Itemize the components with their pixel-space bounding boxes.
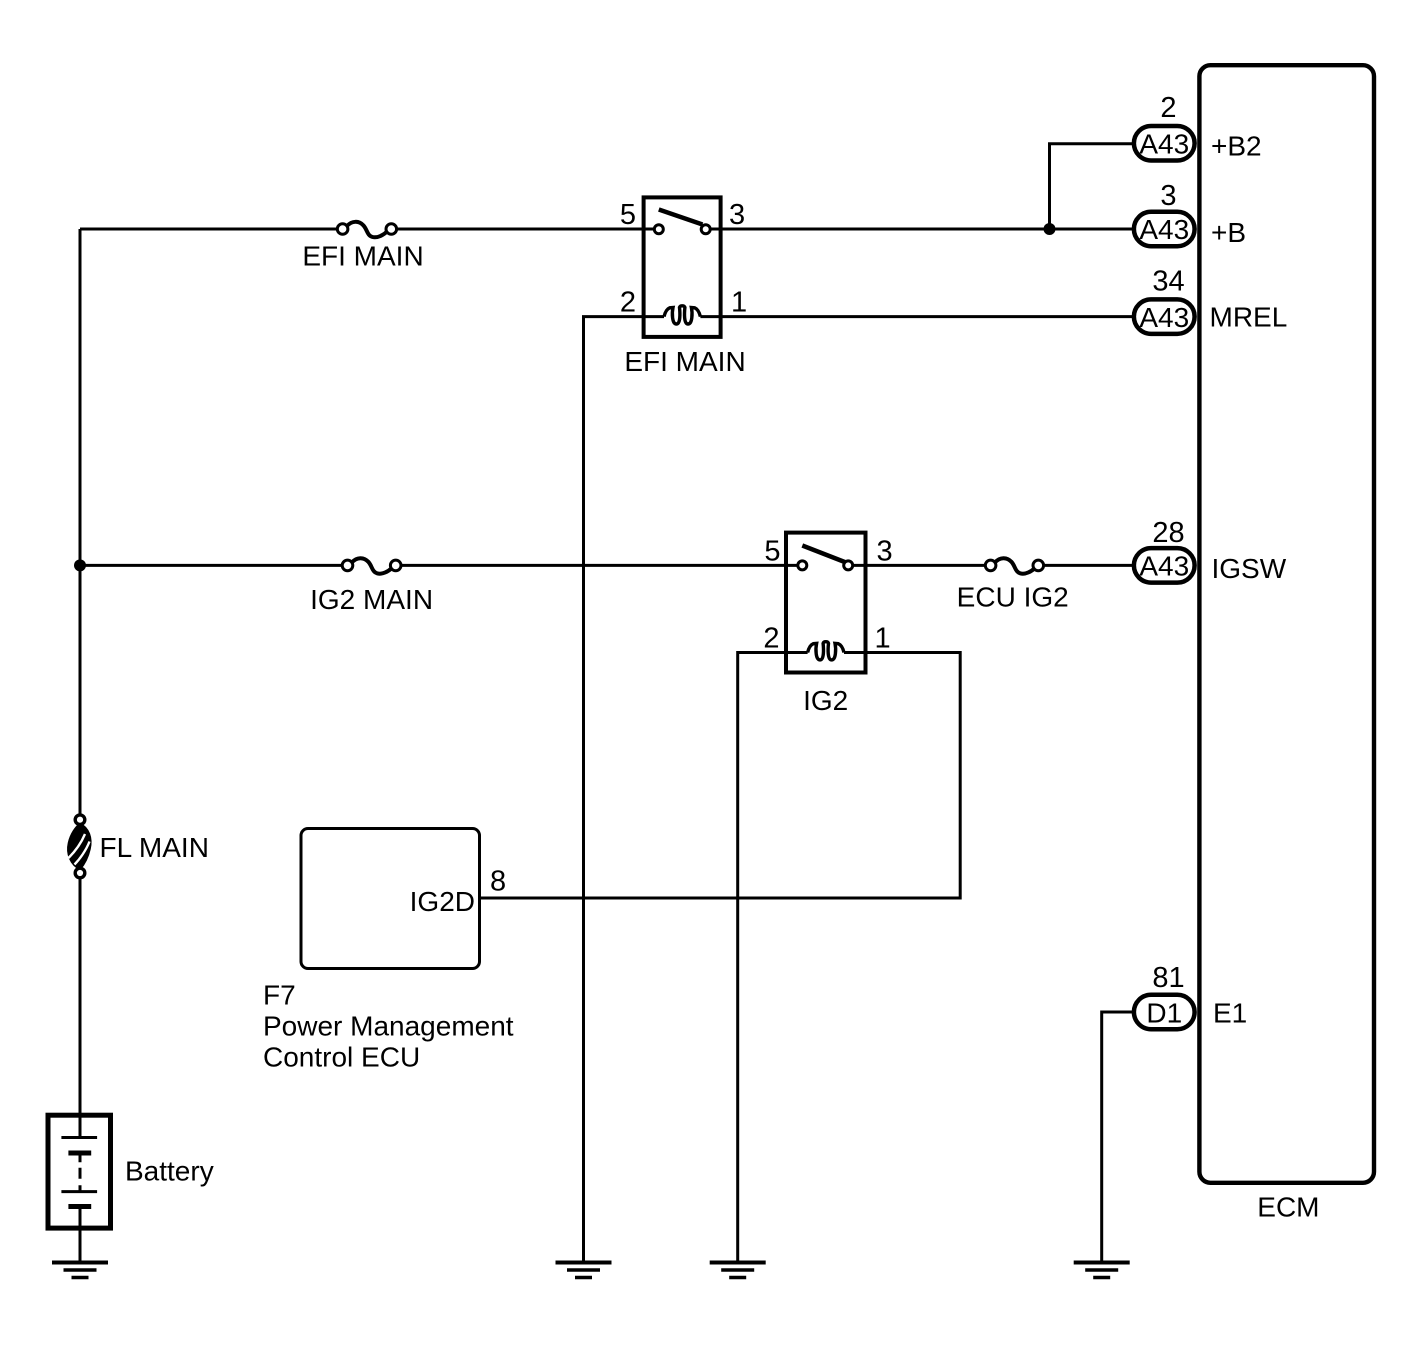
svg-text:Control ECU: Control ECU	[263, 1042, 420, 1073]
relay EFI MAIN switch blade	[659, 210, 703, 225]
svg-text:Power Management: Power Management	[263, 1011, 514, 1042]
svg-text:IG2: IG2	[803, 685, 848, 716]
svg-text:34: 34	[1152, 266, 1184, 298]
svg-text:Battery: Battery	[125, 1156, 214, 1187]
fusible link FL MAIN	[68, 815, 91, 878]
svg-text:D1: D1	[1146, 997, 1182, 1028]
relay IG2 switch blade	[802, 546, 846, 563]
svg-text:2: 2	[1160, 92, 1176, 124]
svg-text:1: 1	[731, 287, 747, 319]
battery box	[48, 1115, 111, 1228]
wire top horizontal to EFI MAIN relay pin 5	[80, 228, 343, 231]
svg-text:E1: E1	[1213, 997, 1247, 1028]
svg-text:3: 3	[877, 535, 893, 567]
relay IG2 switch contact pin 5	[798, 561, 807, 570]
connector D1 pin 81 oval	[1134, 995, 1195, 1030]
relay EFI MAIN switch contact pin 3	[701, 225, 710, 234]
battery plate long 1	[61, 1136, 97, 1139]
junction +B2 tap	[1044, 223, 1056, 235]
svg-text:1: 1	[875, 623, 891, 655]
svg-text:+B: +B	[1211, 217, 1246, 248]
connector A43 pin 2 oval	[1134, 126, 1195, 161]
wire battery positive riser (left vertical)	[79, 229, 82, 1114]
svg-text:IG2D: IG2D	[410, 886, 475, 917]
svg-text:A43: A43	[1139, 551, 1189, 582]
connector A43 pin 34 oval	[1134, 299, 1195, 334]
fuse ECU IG2	[985, 558, 1043, 573]
wire IG2 relay pin 1 to IG2D pin 8	[481, 653, 960, 899]
relay EFI MAIN box	[644, 197, 721, 337]
battery top lead	[79, 1114, 82, 1138]
relay IG2 coil	[808, 642, 844, 660]
relay EFI MAIN coil	[664, 306, 700, 324]
fuse IG2 MAIN	[342, 558, 401, 573]
junction IG2 MAIN tap	[74, 559, 86, 571]
wire IG2 relay pin 2 to ground	[738, 653, 808, 1263]
wire EFI MAIN relay pin 3 to +B	[706, 228, 1134, 231]
wire IG2 relay pin 3 to IGSW	[848, 564, 990, 567]
wire branch to +B2	[1050, 144, 1135, 229]
battery plate short 1	[68, 1151, 91, 1156]
svg-text:EFI MAIN: EFI MAIN	[624, 346, 745, 377]
svg-text:EFI MAIN: EFI MAIN	[302, 241, 423, 272]
battery plate short 2	[68, 1204, 91, 1209]
svg-text:IG2 MAIN: IG2 MAIN	[310, 584, 433, 615]
svg-text:ECU IG2: ECU IG2	[957, 582, 1069, 613]
wire EFI MAIN relay pin 1 to MREL	[700, 315, 1134, 318]
fuse EFI MAIN	[337, 222, 396, 237]
svg-text:FL MAIN: FL MAIN	[100, 832, 209, 863]
svg-text:F7: F7	[263, 980, 296, 1011]
svg-text:2: 2	[763, 623, 779, 655]
wire D1 to ground	[1102, 1012, 1134, 1263]
relay IG2 switch contact pin 3	[844, 561, 853, 570]
svg-text:A43: A43	[1139, 302, 1189, 333]
wire EFI MAIN relay pin 2 to ground	[584, 317, 665, 1263]
svg-text:A43: A43	[1139, 214, 1189, 245]
svg-text:81: 81	[1152, 962, 1184, 994]
ECM box	[1199, 65, 1374, 1183]
svg-text:5: 5	[620, 199, 636, 231]
svg-text:MREL: MREL	[1210, 302, 1288, 333]
svg-text:5: 5	[764, 535, 780, 567]
battery bottom lead	[79, 1207, 82, 1263]
svg-text:8: 8	[490, 866, 506, 898]
ground IG2 relay coil	[710, 1263, 766, 1278]
battery plate long 2	[61, 1190, 97, 1193]
svg-text:2: 2	[620, 287, 636, 319]
F7 Power Management Control ECU box	[301, 829, 480, 969]
svg-text:+B2: +B2	[1211, 130, 1262, 161]
svg-text:28: 28	[1152, 517, 1184, 549]
relay IG2 box	[786, 533, 866, 673]
svg-text:ECM: ECM	[1257, 1192, 1319, 1223]
battery dashed center	[79, 1155, 82, 1190]
connector A43 pin 28 oval	[1134, 548, 1195, 583]
svg-text:A43: A43	[1139, 129, 1189, 160]
svg-text:3: 3	[729, 199, 745, 231]
ground ECM E1	[1074, 1263, 1130, 1278]
wire IG2 MAIN horizontal	[80, 564, 348, 567]
svg-text:3: 3	[1160, 180, 1176, 212]
connector A43 pin 3 oval	[1134, 212, 1195, 247]
svg-text:IGSW: IGSW	[1212, 553, 1287, 584]
ground EFI MAIN relay coil	[556, 1263, 612, 1278]
relay EFI MAIN switch contact pin 5	[654, 225, 663, 234]
ground battery	[52, 1263, 108, 1278]
